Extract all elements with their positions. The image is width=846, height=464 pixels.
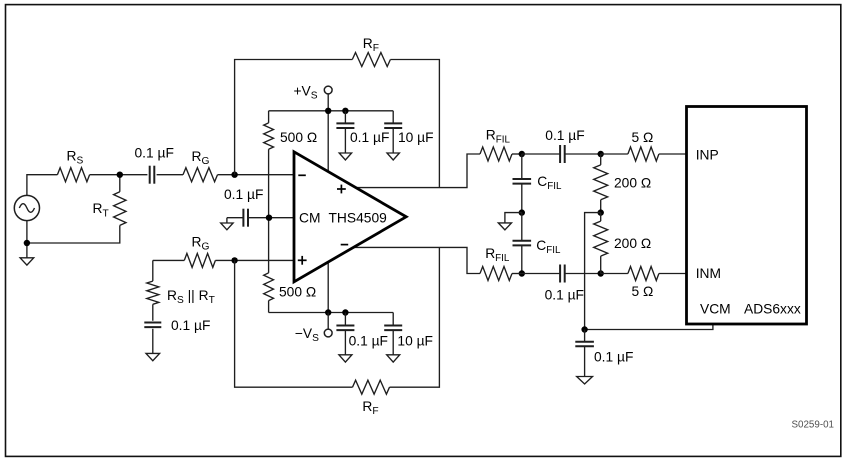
label plus input xyxy=(298,256,307,265)
label CFIL upper xyxy=(537,174,562,192)
wire source bottom xyxy=(26,221,28,258)
wire CFIL top drop xyxy=(521,154,523,179)
label +VS xyxy=(294,84,318,102)
wire INM node xyxy=(512,273,522,275)
wire 200 lower bottom xyxy=(600,256,602,273)
wire -VS stub xyxy=(327,313,329,330)
label 200 upper xyxy=(614,176,651,191)
capacitor C7 10uF -VS xyxy=(384,326,402,331)
label RS xyxy=(67,149,84,167)
terminal -VS xyxy=(324,329,332,337)
label RG upper xyxy=(192,149,210,167)
wire CFIL top to mid xyxy=(521,184,523,213)
AC source V1 xyxy=(14,195,39,220)
node +VS rail b xyxy=(342,108,348,114)
wire to C9 xyxy=(522,273,560,275)
wire +VS stub xyxy=(327,94,329,111)
ground source xyxy=(20,258,34,265)
wire RS to C1 xyxy=(90,174,148,176)
wire -VS rail left corner xyxy=(268,301,270,313)
wire C1 to RG xyxy=(157,174,183,176)
ground C4 xyxy=(339,153,351,160)
wire VCM cap drop xyxy=(584,330,586,342)
node +VS rail a xyxy=(325,108,331,114)
label RF top xyxy=(363,36,379,54)
svg-text:VCM: VCM xyxy=(700,301,731,316)
wire source top to RS xyxy=(27,175,58,196)
wire CM left xyxy=(227,217,243,219)
svg-text:THS4509: THS4509 xyxy=(329,210,388,225)
wire RT bottom return xyxy=(27,225,120,243)
svg-text:+VS: +VS xyxy=(294,84,318,102)
svg-text:0.1 µF: 0.1 µF xyxy=(350,130,389,145)
wire node down to RF bottom xyxy=(235,260,353,387)
resistor RG upper xyxy=(183,168,218,182)
svg-text:RFIL: RFIL xyxy=(485,246,510,264)
node INM 200 xyxy=(598,270,604,276)
label CM pin xyxy=(299,210,320,225)
label 0.1 uF VCM xyxy=(594,349,633,364)
label RS parallel RT xyxy=(167,288,215,306)
ground VCM xyxy=(577,377,593,385)
node CFIL mid xyxy=(519,209,525,215)
wire C10 to ground xyxy=(584,347,586,377)
wire R6 to ADC xyxy=(659,273,687,275)
resistor R3 200 upper xyxy=(594,165,608,200)
capacitor C4 0.1uF +VS xyxy=(336,123,354,128)
svg-text:RT: RT xyxy=(93,201,109,219)
wire divider mid xyxy=(268,149,270,273)
wire C7 to ground xyxy=(392,331,394,355)
terminal +VS xyxy=(324,86,332,94)
svg-text:INP: INP xyxy=(696,147,719,162)
label 0.1 uF +VS xyxy=(350,130,389,145)
wire C2 to ground xyxy=(152,329,154,354)
label 0.1 uF CM xyxy=(224,187,263,202)
svg-text:CM: CM xyxy=(299,210,320,225)
resistor RF bottom xyxy=(353,380,390,394)
ADC U2 ADS6xxx xyxy=(687,107,807,325)
capacitor C6 0.1uF -VS xyxy=(336,326,354,331)
wire CFIL bottom drop xyxy=(521,213,523,241)
resistor R1 500 upper xyxy=(264,123,274,149)
wire C9 to node xyxy=(565,273,601,275)
label 10 uF -VS xyxy=(397,333,433,348)
wire C7 drop xyxy=(392,313,394,326)
wire branch corner to RG lower xyxy=(153,259,185,261)
node source ground xyxy=(24,240,30,246)
svg-text:RFIL: RFIL xyxy=(486,127,511,145)
ground C7 xyxy=(387,355,400,362)
label 200 lower xyxy=(614,236,651,251)
svg-text:CFIL: CFIL xyxy=(537,174,562,192)
label ADS6xxx xyxy=(744,301,801,316)
capacitor C10 0.1uF VCM xyxy=(575,342,594,347)
svg-text:0.1 µF: 0.1 µF xyxy=(545,287,584,302)
wire +VS rail xyxy=(269,110,394,112)
node INP filter xyxy=(519,151,525,157)
svg-text:−VS: −VS xyxy=(295,326,319,344)
resistor R5 5ohm INP xyxy=(628,147,659,161)
resistor R6 5ohm INM xyxy=(628,267,659,281)
capacitor C1 0.1uF input xyxy=(150,166,155,184)
resistor RFIL lower xyxy=(480,267,512,281)
resistor RG lower xyxy=(184,253,215,267)
capacitor CFIL upper xyxy=(513,179,532,184)
svg-text:RF: RF xyxy=(363,36,379,54)
wire 200 upper top xyxy=(600,154,602,165)
wire RFIL to node xyxy=(512,153,522,155)
capacitor C5 10uF +VS xyxy=(384,123,402,128)
node RT tap xyxy=(117,172,123,178)
resistor RFIL upper xyxy=(480,147,512,161)
wire INM to R6 xyxy=(601,273,628,275)
label plus output xyxy=(337,185,346,194)
node upper input xyxy=(231,172,237,178)
label VCM pin xyxy=(700,301,731,316)
resistor RF top xyxy=(352,53,390,67)
resistor RS parallel RT xyxy=(147,281,159,304)
svg-text:0.1 µF: 0.1 µF xyxy=(545,128,584,143)
svg-text:0.1 µF: 0.1 µF xyxy=(171,318,210,333)
wire -VS rail xyxy=(269,312,394,314)
capacitor C2 0.1uF branch xyxy=(144,323,161,328)
svg-text:200 Ω: 200 Ω xyxy=(614,176,651,191)
wire 200 upper bottom xyxy=(600,200,602,213)
wire RT tap xyxy=(119,175,121,192)
svg-text:ADS6xxx: ADS6xxx xyxy=(744,301,801,316)
op-amp U1 THS4509 xyxy=(294,152,406,282)
label -VS xyxy=(295,326,319,344)
label CFIL lower xyxy=(536,238,561,256)
svg-text:S0259-01: S0259-01 xyxy=(792,419,835,430)
svg-text:500 Ω: 500 Ω xyxy=(279,284,316,299)
node INM filter xyxy=(519,270,525,276)
label 0.1 uF INM xyxy=(545,287,584,302)
svg-text:INM: INM xyxy=(696,266,721,281)
wire RG lower to amp noninverting input xyxy=(215,259,294,261)
svg-text:RG: RG xyxy=(192,149,210,167)
wire RG to amp inverting input xyxy=(218,174,295,176)
label RFIL lower xyxy=(485,246,510,264)
label INM pin xyxy=(696,266,721,281)
node VCM xyxy=(581,326,587,332)
ground CM xyxy=(221,223,233,230)
wire C5 to ground xyxy=(392,128,394,153)
node lower input xyxy=(231,257,237,263)
resistor RS xyxy=(57,168,89,182)
wire node to RF top xyxy=(235,60,353,175)
label INP pin xyxy=(696,147,719,162)
capacitor C9 0.1uF INM xyxy=(560,265,565,283)
svg-text:10 µF: 10 µF xyxy=(397,333,433,348)
capacitor C3 0.1uF CM xyxy=(243,209,248,227)
wire 200 lower top xyxy=(600,213,602,222)
svg-text:CFIL: CFIL xyxy=(536,238,561,256)
wire rail to R1 xyxy=(268,111,270,123)
wire +VS into amp xyxy=(327,111,329,174)
ground C6 xyxy=(339,355,352,362)
svg-text:0.1 µF: 0.1 µF xyxy=(224,187,263,202)
svg-text:RS​ || RT: RS​ || RT xyxy=(167,288,215,306)
svg-text:RG: RG xyxy=(192,235,210,253)
wire C8 to node xyxy=(565,153,601,155)
wire to C8 xyxy=(522,153,560,155)
node -VS rail b xyxy=(342,309,348,315)
label 5 ohm INP xyxy=(632,130,654,145)
wire C4 drop xyxy=(344,111,346,123)
label minus input xyxy=(298,174,306,176)
node INP 200 xyxy=(598,151,604,157)
wire mid to VCM line xyxy=(585,213,601,330)
label 5 ohm INM xyxy=(632,284,654,299)
resistor R4 200 lower xyxy=(594,221,608,256)
capacitor C8 0.1uF INP xyxy=(560,145,565,163)
label 0.1 uF INP xyxy=(545,128,584,143)
label 500 upper xyxy=(280,130,317,145)
svg-text:0.1 µF: 0.1 µF xyxy=(349,333,388,348)
wire branch down xyxy=(152,260,154,281)
wire CM to amp xyxy=(248,217,294,219)
resistor RT xyxy=(114,192,126,226)
wire output plus xyxy=(352,154,480,188)
wire RF top to output xyxy=(390,60,439,188)
wire -VS from amp xyxy=(327,260,329,313)
wire R5 to ADC xyxy=(659,153,687,155)
node -VS rail a xyxy=(325,309,331,315)
label minus output xyxy=(341,244,349,246)
svg-text:5 Ω: 5 Ω xyxy=(632,130,654,145)
wire VCM pin xyxy=(585,324,713,330)
wire INP to R5 xyxy=(601,153,628,155)
node 200 mid xyxy=(598,209,604,215)
label 500 lower xyxy=(279,284,316,299)
svg-text:500 Ω: 500 Ω xyxy=(280,130,317,145)
svg-text:RS: RS xyxy=(67,149,84,167)
capacitor CFIL lower xyxy=(513,241,532,246)
ground CFIL xyxy=(498,223,511,230)
label RG lower xyxy=(192,235,210,253)
svg-text:RF: RF xyxy=(362,399,378,417)
wire C4 to ground xyxy=(344,128,346,153)
label 0.1 uF branch xyxy=(171,318,210,333)
svg-text:5 Ω: 5 Ω xyxy=(632,284,654,299)
wire CFIL ground stub xyxy=(505,213,522,223)
wire RSRT to C2 xyxy=(152,304,154,321)
wire C6 to ground xyxy=(344,331,346,355)
label THS4509 xyxy=(329,210,388,225)
ground C5 xyxy=(387,153,399,160)
label 10 uF +VS xyxy=(398,130,434,145)
ground branch xyxy=(146,353,160,360)
label RF bottom xyxy=(362,399,378,417)
label 0.1 uF input xyxy=(135,146,174,161)
wire C5 drop xyxy=(392,111,394,123)
label S0259-01 xyxy=(792,419,835,430)
wire C6 drop xyxy=(344,313,346,326)
label 0.1 uF -VS xyxy=(349,333,388,348)
wire RF bottom to output xyxy=(390,247,440,387)
svg-text:10 µF: 10 µF xyxy=(398,130,434,145)
svg-text:200 Ω: 200 Ω xyxy=(614,236,651,251)
label RFIL upper xyxy=(486,127,511,145)
wire CM ground stub xyxy=(226,218,228,223)
wire output minus xyxy=(352,247,480,273)
wire CFIL bottom to INM node xyxy=(521,245,523,273)
svg-text:0.1 µF: 0.1 µF xyxy=(135,146,174,161)
resistor R2 500 lower xyxy=(264,273,274,301)
label RT xyxy=(93,201,109,219)
node CM divider xyxy=(266,215,272,221)
svg-text:0.1 µF: 0.1 µF xyxy=(594,349,633,364)
